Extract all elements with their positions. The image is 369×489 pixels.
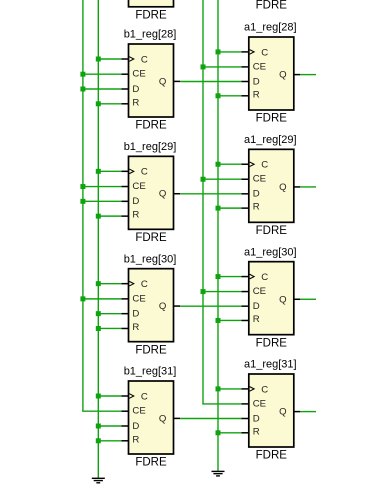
junction at a1_reg[29].CE on vertical net x=203 <box>201 177 206 182</box>
svg-text:D: D <box>132 309 139 320</box>
wire: b1_reg[31].Q output to a1_reg[31].D <box>173 417 242 419</box>
wire: a1_reg[29].Q output stub <box>293 186 316 188</box>
svg-text:D: D <box>253 301 260 312</box>
svg-text:FDRE: FDRE <box>256 113 288 125</box>
wire: clock net stub to b1_reg[28].C <box>98 58 129 60</box>
a1_reg[30] pin C (clock) with edge triangle <box>250 272 269 283</box>
wire: reset net stub to a1_reg[30].R <box>218 319 249 321</box>
junction at b1_reg[30].C on vertical net x=98.3 <box>96 281 101 286</box>
wire: reset net stub to b1_reg[31].R <box>98 440 129 442</box>
svg-text:CE: CE <box>253 286 266 297</box>
svg-text:D: D <box>253 413 260 424</box>
svg-text:FDRE: FDRE <box>256 337 288 349</box>
wire: reset net stub to a1_reg[31].R <box>218 432 249 434</box>
b1_reg[28] pin Q <box>159 76 166 87</box>
b1_reg[29] pin D <box>132 196 139 207</box>
wire: clock net stub to b1_reg[31].C <box>98 395 129 397</box>
svg-text:Q: Q <box>279 182 286 193</box>
junction at b1_reg[31].D on vertical net x=98.3 <box>96 424 101 429</box>
svg-text:C: C <box>261 160 268 171</box>
svg-text:FDRE: FDRE <box>256 450 288 462</box>
flip-flop b1_reg[28] (FDRE) body <box>129 44 174 117</box>
svg-text:b1_reg[28]: b1_reg[28] <box>124 29 177 41</box>
svg-text:CE: CE <box>132 293 145 304</box>
b1_reg[29] type label FDRE <box>135 232 167 244</box>
a1_reg[28] pin C (clock) with edge triangle <box>250 47 269 58</box>
a1_reg[29] instance label <box>244 134 297 146</box>
svg-text:R: R <box>132 97 139 108</box>
svg-text:CE: CE <box>132 69 145 80</box>
b1_reg[30] pin CE <box>132 293 145 304</box>
b1_reg[29] instance label <box>124 141 177 153</box>
junction at a1_reg[31].R on vertical net x=218 <box>216 430 221 435</box>
b1_reg[30] pin D <box>132 309 139 320</box>
junction at b1_reg[29].R on vertical net x=98.3 <box>96 214 101 219</box>
wire: data stub to b1_reg[31].D <box>98 425 129 427</box>
junction at b1_reg[29].CE on vertical net x=82.9 <box>80 184 85 189</box>
wire: clock net stub to b1_reg[29].C <box>98 170 129 172</box>
b1_reg[28] pin CE <box>132 69 145 80</box>
junction at b1_reg[31].R on vertical net x=98.3 <box>96 438 101 443</box>
a1_reg[28] type label FDRE <box>256 113 288 125</box>
b1_reg[31] pin R <box>132 434 139 445</box>
b1_reg[28] pin D <box>132 84 139 95</box>
svg-text:C: C <box>141 167 148 178</box>
b1_reg[31] pin D <box>132 421 139 432</box>
a1_reg[29] pin CE <box>253 174 266 185</box>
ground symbol, a1 column reset net <box>212 471 225 476</box>
svg-text:b1_reg[30]: b1_reg[30] <box>124 253 177 265</box>
b1_reg[28] type label FDRE <box>135 120 167 132</box>
flip-flop b1_reg[29] (FDRE) body <box>129 156 174 229</box>
svg-text:Q: Q <box>279 70 286 81</box>
wire: data stub to b1_reg[29].D <box>83 200 129 202</box>
a1_reg[28] pin Q <box>279 70 286 81</box>
svg-text:R: R <box>132 210 139 221</box>
junction at b1_reg[30].CE on vertical net x=82.9 <box>80 296 85 301</box>
b1_reg[30] type label FDRE <box>135 344 167 356</box>
b1_reg[30] pin C (clock) with edge triangle <box>129 279 148 290</box>
a1_reg[31] type label FDRE <box>256 450 288 462</box>
wire: stub from b1 Q net into a1_reg[29].D <box>242 193 250 195</box>
wire: enable net stub to b1_reg[29].CE <box>83 186 129 188</box>
svg-text:FDRE: FDRE <box>135 9 167 21</box>
svg-text:Q: Q <box>159 413 166 424</box>
b1_reg[30] instance label <box>124 253 177 265</box>
svg-text:D: D <box>132 84 139 95</box>
b1_reg[30] pin R <box>132 322 139 333</box>
wire: reset net stub to b1_reg[30].R <box>98 327 129 329</box>
wire: clock net stub to a1_reg[28].C <box>218 51 249 53</box>
a1_reg[30] pin D <box>253 301 260 312</box>
svg-text:FDRE: FDRE <box>256 225 288 237</box>
wire: stub from b1 Q net into a1_reg[28].D <box>242 81 250 83</box>
a1_reg[30] type label FDRE <box>256 337 288 349</box>
svg-text:FDRE: FDRE <box>135 457 167 469</box>
junction at b1_reg[28].D on vertical net x=82.9 <box>80 87 85 92</box>
flip-flop b1_reg[31] (FDRE) body <box>129 381 174 454</box>
wire: b1_reg[29].Q output to a1_reg[29].D <box>173 193 242 195</box>
a1_reg[29] pin Q <box>279 182 286 193</box>
ground symbol, b1 column reset net <box>92 478 105 483</box>
wire: reset net stub to b1_reg[29].R <box>98 215 129 217</box>
junction at a1_reg[30].C on vertical net x=218 <box>216 274 221 279</box>
wire: b1_reg[30].Q output to a1_reg[30].D <box>173 305 242 307</box>
b1_reg[29] pin CE <box>132 181 145 192</box>
junction at b1_reg[30].D on vertical net x=98.3 <box>96 311 101 316</box>
junction at b1_reg[29].C on vertical net x=98.3 <box>96 169 101 174</box>
svg-text:C: C <box>141 279 148 290</box>
svg-text:Q: Q <box>159 189 166 200</box>
junction at b1_reg[29].D on vertical net x=82.9 <box>80 199 85 204</box>
junction at a1_reg[30].CE on vertical net x=203 <box>201 289 206 294</box>
wire: reset net stub to a1_reg[29].R <box>218 207 249 209</box>
svg-text:CE: CE <box>253 174 266 185</box>
vertical net: a1 column CE channel (x=203) <box>202 0 204 404</box>
svg-text:b1_reg[29]: b1_reg[29] <box>124 141 177 153</box>
b1_reg[30] pin Q <box>159 301 166 312</box>
a1_reg[29] pin C (clock) with edge triangle <box>250 160 269 171</box>
b1_reg[29] pin Q <box>159 189 166 200</box>
wire: enable net stub to a1_reg[30].CE <box>203 291 249 293</box>
junction at a1_reg[31].C on vertical net x=218 <box>216 386 221 391</box>
a1_reg[31] pin C (clock) with edge triangle <box>250 384 269 395</box>
svg-text:CE: CE <box>253 398 266 409</box>
a1_reg[31] pin CE <box>253 398 266 409</box>
wire: stub from b1 Q net into a1_reg[30].D <box>242 305 250 307</box>
junction at b1_reg[28].R on vertical net x=98.3 <box>96 101 101 106</box>
wire: enable net stub to b1_reg[30].CE <box>83 298 129 300</box>
wire: clock net stub to a1_reg[29].C <box>218 163 249 165</box>
svg-text:Q: Q <box>159 76 166 87</box>
flip-flop a1_reg[30] (FDRE) body <box>249 262 294 335</box>
svg-text:Q: Q <box>279 294 286 305</box>
a1_reg[30] pin R <box>253 314 260 325</box>
svg-text:C: C <box>141 391 148 402</box>
b1_reg[27] type label FDRE <box>135 9 167 21</box>
a1_reg[29] pin D <box>253 189 260 200</box>
b1_reg[29] pin C (clock) with edge triangle <box>129 167 148 178</box>
svg-text:C: C <box>261 47 268 58</box>
flip-flop a1_reg[29] (FDRE) body <box>249 149 294 222</box>
svg-text:CE: CE <box>132 406 145 417</box>
svg-text:R: R <box>253 202 260 213</box>
flip-flop a1_reg[28] (FDRE) body <box>249 37 294 110</box>
svg-text:CE: CE <box>253 61 266 72</box>
junction at a1_reg[29].C on vertical net x=218 <box>216 162 221 167</box>
a1_reg[30] instance label <box>244 246 297 258</box>
a1_reg[29] pin R <box>253 202 260 213</box>
a1_reg[28] pin R <box>253 89 260 100</box>
svg-text:FDRE: FDRE <box>135 120 167 132</box>
junction at a1_reg[28].C on vertical net x=218 <box>216 49 221 54</box>
a1_reg[29] type label FDRE <box>256 225 288 237</box>
wire: enable net stub to a1_reg[28].CE <box>203 66 249 68</box>
junction at b1_reg[30].R on vertical net x=98.3 <box>96 326 101 331</box>
svg-text:a1_reg[29]: a1_reg[29] <box>244 134 297 146</box>
b1_reg[29] pin R <box>132 210 139 221</box>
svg-text:R: R <box>132 434 139 445</box>
b1_reg[31] type label FDRE <box>135 457 167 469</box>
svg-text:Q: Q <box>159 301 166 312</box>
junction at a1_reg[30].R on vertical net x=218 <box>216 318 221 323</box>
a1_reg[28] pin CE <box>253 61 266 72</box>
svg-text:a1_reg[30]: a1_reg[30] <box>244 246 297 258</box>
wire: a1_reg[30].Q output stub <box>293 298 316 300</box>
svg-text:C: C <box>261 384 268 395</box>
wire: enable net stub to b1_reg[28].CE <box>83 73 129 75</box>
a1_reg[30] pin CE <box>253 286 266 297</box>
a1_reg[31] pin D <box>253 413 260 424</box>
flip-flop b1_reg[27] (partial, top edge) body <box>129 0 174 7</box>
svg-text:R: R <box>253 426 260 437</box>
svg-text:C: C <box>141 54 148 65</box>
vertical net: b1 column CE/data channel (x=82.9) <box>82 0 84 411</box>
wire: enable net elbow into b1_reg[31].CE <box>82 410 129 412</box>
svg-text:b1_reg[31]: b1_reg[31] <box>124 366 177 378</box>
wire: a1_reg[31].Q output stub <box>293 411 316 413</box>
vertical net: b1 column clock/reset channel to ground (x=98.3) <box>97 0 99 478</box>
svg-text:FDRE: FDRE <box>135 344 167 356</box>
wire: reset net stub to a1_reg[28].R <box>218 95 249 97</box>
wire: clock net stub to a1_reg[31].C <box>218 388 249 390</box>
a1_reg[27] type label FDRE (box above top edge) <box>256 0 288 11</box>
b1_reg[31] pin Q <box>159 413 166 424</box>
junction at a1_reg[29].R on vertical net x=218 <box>216 206 221 211</box>
a1_reg[28] pin D <box>253 76 260 87</box>
a1_reg[31] pin Q <box>279 407 286 418</box>
wire: clock net stub to a1_reg[30].C <box>218 276 249 278</box>
junction at a1_reg[28].R on vertical net x=218 <box>216 93 221 98</box>
b1_reg[31] pin CE <box>132 406 145 417</box>
svg-text:R: R <box>253 314 260 325</box>
svg-text:D: D <box>253 76 260 87</box>
a1_reg[31] instance label <box>244 359 297 371</box>
wire: b1_reg[28].Q output to a1_reg[28].D <box>173 80 242 82</box>
svg-text:D: D <box>132 196 139 207</box>
svg-text:R: R <box>253 89 260 100</box>
a1_reg[28] instance label <box>244 22 297 34</box>
wire: data stub to b1_reg[30].D <box>98 313 129 315</box>
wire: data stub to b1_reg[28].D <box>83 88 129 90</box>
junction at b1_reg[28].CE on vertical net x=82.9 <box>80 72 85 77</box>
svg-text:FDRE: FDRE <box>135 232 167 244</box>
wire: enable net stub to a1_reg[29].CE <box>203 178 249 180</box>
svg-text:a1_reg[28]: a1_reg[28] <box>244 22 297 34</box>
flip-flop b1_reg[30] (FDRE) body <box>129 269 174 342</box>
junction at a1_reg[28].CE on vertical net x=203 <box>201 64 206 69</box>
junction at b1_reg[31].C on vertical net x=98.3 <box>96 394 101 399</box>
b1_reg[28] pin R <box>132 97 139 108</box>
wire: enable net elbow into a1_reg[31].CE <box>202 403 249 405</box>
b1_reg[28] instance label <box>124 29 177 41</box>
svg-text:D: D <box>253 189 260 200</box>
svg-text:C: C <box>261 272 268 283</box>
svg-text:a1_reg[31]: a1_reg[31] <box>244 359 297 371</box>
flip-flop a1_reg[31] (FDRE) body <box>249 374 294 447</box>
wire: a1_reg[28].Q output stub <box>293 74 316 76</box>
vertical net: a1 column clock/reset channel to ground (x=218) <box>217 0 219 471</box>
svg-text:CE: CE <box>132 181 145 192</box>
wire: clock net stub to b1_reg[30].C <box>98 283 129 285</box>
a1_reg[31] pin R <box>253 426 260 437</box>
svg-text:Q: Q <box>279 407 286 418</box>
b1_reg[31] instance label <box>124 366 177 378</box>
svg-text:FDRE: FDRE <box>256 0 288 11</box>
wire: stub from b1 Q net into a1_reg[31].D <box>242 418 250 420</box>
a1_reg[30] pin Q <box>279 294 286 305</box>
wire: reset net stub to b1_reg[28].R <box>98 103 129 105</box>
b1_reg[31] pin C (clock) with edge triangle <box>129 391 148 402</box>
b1_reg[28] pin C (clock) with edge triangle <box>129 54 148 65</box>
svg-text:R: R <box>132 322 139 333</box>
junction at b1_reg[28].C on vertical net x=98.3 <box>96 57 101 62</box>
svg-text:D: D <box>132 421 139 432</box>
